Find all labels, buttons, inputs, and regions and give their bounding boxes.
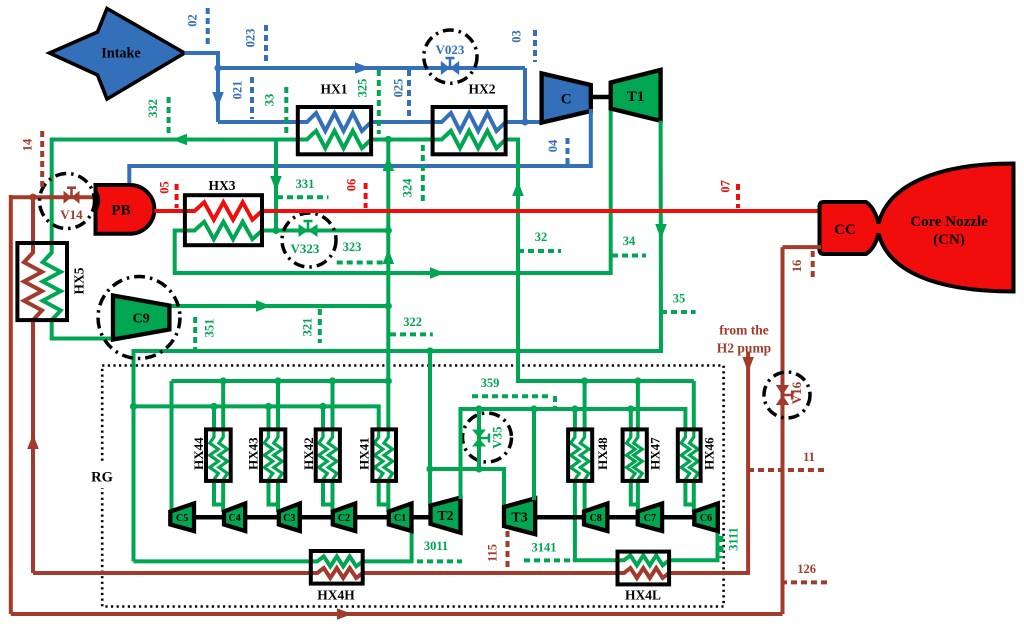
wire bottom H2 line <box>11 612 783 616</box>
svg-text:HX3: HX3 <box>209 178 236 193</box>
wire HX48 right to C8 inlet <box>583 479 587 512</box>
valve V323 body <box>299 224 309 237</box>
valve V323 circle <box>282 213 336 267</box>
arrow on spine up2 <box>383 249 395 264</box>
svg-text:06: 06 <box>345 179 359 192</box>
arrow on bottom H2 line <box>337 608 352 620</box>
svg-text:03: 03 <box>510 30 524 43</box>
svg-text:V16: V16 <box>789 381 804 404</box>
station 34 tick <box>612 254 646 258</box>
svg-text:Intake: Intake <box>101 46 140 62</box>
shaft C5-C4 <box>194 515 224 520</box>
HX47 coil right <box>634 431 643 480</box>
svg-text:from the: from the <box>719 323 769 338</box>
wire HX48 left feed <box>573 409 577 430</box>
HX47 box <box>623 429 647 481</box>
arrow on spine up1 <box>383 156 395 171</box>
svg-text:3111: 3111 <box>727 527 741 551</box>
node upper rail right end <box>385 377 392 384</box>
valve V023 body <box>441 61 450 75</box>
arrow on 021 branch <box>212 92 224 107</box>
valve V35 body <box>472 430 486 439</box>
svg-text:HX4H: HX4H <box>317 588 355 603</box>
wire HX41 to C1 <box>379 479 389 505</box>
wire V14 feed line <box>11 195 96 199</box>
station 03 tick <box>533 30 537 62</box>
wire V35 branch <box>477 409 481 469</box>
HX43 box <box>261 429 285 481</box>
svg-text:HX44: HX44 <box>191 437 206 470</box>
HX4L green coil <box>618 555 670 565</box>
svg-text:V323: V323 <box>291 241 320 256</box>
shaft C2-C1 <box>355 515 389 520</box>
HX41 box <box>372 429 396 481</box>
wire H2 recovery line <box>33 571 313 575</box>
shaft C4-C3 <box>245 515 279 520</box>
wire HX5 maroon feed <box>31 197 35 245</box>
valve V35 circle <box>463 413 512 462</box>
valve V16 circle <box>764 372 810 418</box>
HX5 green coil <box>43 243 61 320</box>
wire lower rail <box>134 406 379 430</box>
wire 332 down to HX5 <box>50 138 54 246</box>
wire 322-323 spine <box>386 140 390 431</box>
HX42 box <box>316 429 340 481</box>
station 115 tick <box>506 531 510 571</box>
shaft C3-C2 <box>300 515 333 520</box>
station 11 tick <box>748 468 825 472</box>
svg-text:325: 325 <box>356 79 370 98</box>
wire HX1-HX2 blue <box>371 120 435 124</box>
wire HX1-HX2 green <box>371 138 435 142</box>
wire HX4H to C1 outlet <box>363 529 412 561</box>
node T3 riser junction <box>530 405 537 412</box>
wire HX4L to C6 outlet <box>669 529 717 560</box>
svg-text:14: 14 <box>21 138 35 151</box>
station 35 tick <box>661 310 696 314</box>
valve V14 body <box>64 191 72 204</box>
wire HX47 to C7 <box>631 479 638 505</box>
svg-text:H2 pump: H2 pump <box>717 341 771 356</box>
wire 021 branch down <box>216 68 220 122</box>
svg-text:021: 021 <box>231 81 245 100</box>
wire T1 inlet riser <box>609 109 613 275</box>
svg-text:HX47: HX47 <box>648 437 663 470</box>
svg-text:33: 33 <box>263 94 277 107</box>
HX44 box <box>206 429 231 481</box>
station 023 tick <box>264 25 268 65</box>
wire 32 HX2 to right rail <box>506 140 694 382</box>
wire T2 inlet <box>428 349 432 506</box>
svg-text:C6: C6 <box>700 513 712 524</box>
station 359 tick <box>472 394 551 398</box>
wire HX46 right to C6 inlet <box>692 479 696 512</box>
station 332 tick <box>167 97 171 134</box>
HX2 blue coil <box>433 113 506 131</box>
node upper rail HX42 <box>329 377 336 384</box>
HX42 coil right <box>328 431 337 480</box>
node 388-139 junction <box>385 136 392 143</box>
node HX3 green out <box>272 227 279 234</box>
svg-text:C1: C1 <box>394 513 406 524</box>
compressor C3 <box>279 504 300 532</box>
wire 023 top line <box>218 66 525 70</box>
combustion chamber CC and core nozzle CN <box>820 164 1014 292</box>
arrow on 34 line <box>655 224 667 239</box>
wire HX43 right to C3 inlet <box>276 479 280 512</box>
shaft T3-C8 <box>535 515 584 520</box>
HX41 coil left <box>374 431 383 480</box>
svg-text:C9: C9 <box>133 312 150 327</box>
svg-text:C7: C7 <box>644 513 656 524</box>
svg-text:C4: C4 <box>228 513 240 524</box>
station 06 tick <box>364 183 368 208</box>
wire HX4H green line <box>134 559 313 563</box>
svg-text:323: 323 <box>343 240 362 254</box>
station 3141 tick <box>524 558 570 562</box>
HX1 blue coil <box>298 113 371 131</box>
wire HX5 maroon down <box>31 318 35 573</box>
node V35 bottom tee <box>475 465 482 472</box>
station 07 tick <box>736 184 740 208</box>
svg-text:Core Nozzle: Core Nozzle <box>910 214 988 230</box>
station 04 tick <box>566 138 570 164</box>
wire V323 line <box>262 229 388 233</box>
svg-text:3141: 3141 <box>532 541 557 555</box>
HX46 coil right <box>690 431 699 480</box>
wire HX2 to C <box>506 120 543 124</box>
C9 dash-dot circle <box>98 277 180 359</box>
wire HX44 right to C4 inlet <box>221 479 225 512</box>
intake block arrow <box>50 9 185 100</box>
HX1 green coil <box>298 131 371 148</box>
wire main red line to CC <box>262 209 821 213</box>
svg-text:V023: V023 <box>436 42 465 57</box>
valve V16 body <box>776 385 789 395</box>
station 324 tick <box>421 145 425 205</box>
HX3 green coil <box>185 222 262 239</box>
svg-text:HX2: HX2 <box>469 82 496 97</box>
HX43 coil right <box>274 431 283 480</box>
HX47 coil left <box>627 431 636 480</box>
compressor C1 <box>389 504 412 532</box>
arrow on HX5 return <box>27 434 39 449</box>
wire HX48 right feed <box>583 381 587 430</box>
svg-text:C8: C8 <box>590 513 602 524</box>
HX48 coil right <box>580 431 589 480</box>
wire HX48 left down to HX4L <box>573 479 577 560</box>
svg-text:CC: CC <box>834 222 856 238</box>
wire PB to HX3 red <box>154 209 187 213</box>
svg-text:HX48: HX48 <box>595 437 610 470</box>
HX41 coil right <box>384 431 393 480</box>
wire intake outlet 02 <box>185 53 219 68</box>
wire HX44 to C4 <box>214 479 223 505</box>
turbine T1 <box>611 70 661 121</box>
wire HX4L green line <box>575 558 620 560</box>
HX4H maroon coil <box>311 568 363 578</box>
HX43 left feed <box>267 406 271 430</box>
HX42 left feed <box>321 406 325 430</box>
HX44 left feed <box>212 406 216 430</box>
station 126 tick <box>781 580 827 584</box>
station 02 tick <box>206 8 210 48</box>
svg-text:332: 332 <box>146 99 160 118</box>
svg-text:321: 321 <box>301 318 315 337</box>
station 331 tick <box>277 195 328 199</box>
wire HX43 right feed <box>276 381 280 430</box>
HX4H green coil <box>311 556 363 566</box>
compressor C4 <box>224 504 245 532</box>
shaft C7-C6 <box>662 515 694 520</box>
HX42 coil left <box>319 431 328 480</box>
node V35 top tee <box>475 405 482 412</box>
shaft C8-C7 <box>607 515 637 520</box>
svg-text:HX5: HX5 <box>72 267 87 294</box>
wire 03 corner down <box>523 68 527 122</box>
svg-text:35: 35 <box>673 292 686 306</box>
wire C5 feed <box>170 381 174 512</box>
wire HX42 to C2 <box>323 479 333 505</box>
wire HX44 right feed <box>221 381 225 430</box>
preburner PB <box>96 185 155 234</box>
node C9 outlet junction <box>385 302 392 309</box>
wire HX42 right feed <box>331 381 335 430</box>
svg-text:(CN): (CN) <box>933 232 965 248</box>
wire 34 T1 outlet <box>134 121 662 351</box>
wire outer H2 left drop <box>9 195 13 614</box>
station 3011 tick <box>417 559 462 563</box>
svg-text:HX43: HX43 <box>246 437 261 470</box>
compressor C5 <box>170 504 194 532</box>
station 16 tick <box>811 251 815 278</box>
wire T2 outlet rail <box>461 409 686 499</box>
turbine T2 <box>431 498 461 533</box>
HX44 coil left <box>210 431 219 480</box>
node lower rail left <box>130 403 137 410</box>
station 321 tick <box>318 309 322 343</box>
node upper rail HX43 <box>274 377 281 384</box>
HX5 box <box>17 243 67 320</box>
node lower rail HX44 <box>210 403 217 410</box>
node V323 right junction <box>385 227 392 234</box>
svg-text:126: 126 <box>797 562 816 576</box>
svg-text:C5: C5 <box>176 513 188 524</box>
svg-text:3011: 3011 <box>424 539 448 553</box>
wire HX42 right to C2 inlet <box>331 479 335 512</box>
svg-text:16: 16 <box>790 260 804 273</box>
wire HX47 right feed <box>636 381 640 430</box>
node HX47 left feed <box>627 405 634 412</box>
wire HX47 left feed <box>629 409 633 430</box>
svg-text:T2: T2 <box>437 509 453 524</box>
svg-text:HX1: HX1 <box>321 82 348 97</box>
recuperator group RG dotted border <box>102 366 723 607</box>
compressor C7 <box>638 504 662 532</box>
arrow on T1 inlet line <box>430 267 445 279</box>
shaft C-T1 <box>591 95 611 100</box>
arrow on 324 branch <box>270 176 282 191</box>
svg-text:324: 324 <box>401 178 415 198</box>
turbine T3 <box>504 498 535 534</box>
wire T3 riser <box>532 409 536 500</box>
node HX48 left feed <box>571 405 578 412</box>
HX5 maroon coil <box>24 243 42 320</box>
svg-text:RG: RG <box>91 470 113 486</box>
svg-text:PB: PB <box>111 203 130 219</box>
station 021 tick <box>250 77 254 119</box>
wire 04 from C to PB <box>129 109 591 187</box>
wire CC H2 feed <box>783 245 822 249</box>
node upper rail HX44 <box>220 377 227 384</box>
arrow from H2 pump <box>742 357 754 372</box>
svg-text:T1: T1 <box>627 89 645 105</box>
svg-text:C3: C3 <box>283 513 295 524</box>
valve V14 circle <box>40 174 95 229</box>
compressor C <box>542 73 591 122</box>
HX4L maroon coil <box>618 568 670 578</box>
node HX48 right feed <box>581 377 588 384</box>
HX1 box <box>298 107 371 154</box>
HX3 red coil <box>185 202 262 219</box>
svg-text:11: 11 <box>803 450 815 464</box>
HX48 coil left <box>571 431 580 480</box>
wire HX4L to pump riser <box>669 352 748 573</box>
svg-text:023: 023 <box>244 29 258 48</box>
node intake junction <box>214 64 221 71</box>
HX48 box <box>568 429 592 481</box>
svg-text:C2: C2 <box>338 513 350 524</box>
station 32 tick <box>518 249 561 253</box>
node H2 split <box>29 194 36 201</box>
wire HX46 to C6 <box>685 479 693 505</box>
node compressor inlet junction <box>521 118 528 125</box>
compressor C8 <box>584 504 607 532</box>
HX2 green coil <box>433 131 506 148</box>
wire 32 rail to HX46 right <box>692 381 696 430</box>
shaft C1-T2 <box>412 515 431 520</box>
wire between HX4H HX4L <box>363 571 620 575</box>
node lower rail HX42 <box>319 403 326 410</box>
station 05 tick <box>175 184 179 208</box>
station 3111 tick <box>720 536 724 558</box>
wire 332 line <box>52 138 300 142</box>
svg-text:HX4L: HX4L <box>625 588 661 603</box>
svg-text:HX46: HX46 <box>702 437 717 470</box>
svg-text:V14: V14 <box>60 207 83 222</box>
wire HX3 green left to T1 inlet <box>175 231 611 274</box>
svg-text:32: 32 <box>535 230 548 244</box>
wire 34 left rail down <box>132 349 136 561</box>
node V35 bottom junction <box>426 465 433 472</box>
svg-text:05: 05 <box>157 181 171 194</box>
station 33 tick <box>284 87 288 133</box>
svg-text:HX41: HX41 <box>357 437 372 470</box>
wire 021 to HX1 <box>218 120 300 124</box>
wire HX5 to C9 inlet <box>52 318 115 339</box>
station 322 tick <box>390 332 433 336</box>
wire C9 outlet <box>169 304 388 308</box>
svg-text:07: 07 <box>719 180 733 193</box>
compressor C9 <box>113 296 169 340</box>
HX46 coil left <box>681 431 690 480</box>
svg-text:359: 359 <box>481 376 500 390</box>
HX4L box <box>618 552 670 585</box>
svg-text:T3: T3 <box>511 510 527 525</box>
wire HX43 to C3 <box>269 479 279 505</box>
valve V023 circle <box>424 30 477 83</box>
HX44 coil right <box>219 431 228 480</box>
arrow on 023 line <box>355 62 370 74</box>
svg-text:115: 115 <box>486 544 500 562</box>
svg-text:34: 34 <box>623 234 636 248</box>
station 325 tick <box>377 70 381 134</box>
wire 324 branch down <box>274 138 278 231</box>
wire V35 bottom line to T3 <box>430 469 504 508</box>
compressor C6 <box>694 504 718 532</box>
compressor C2 <box>333 504 355 532</box>
HX4H box <box>311 551 363 584</box>
wire upper rail <box>172 379 389 383</box>
HX3 box <box>185 195 262 245</box>
svg-text:025: 025 <box>392 79 406 98</box>
svg-text:322: 322 <box>403 315 422 329</box>
arrow on 32 line <box>512 181 524 196</box>
station 025 tick <box>407 70 411 117</box>
svg-text:V35: V35 <box>490 426 505 449</box>
HX46 box <box>678 429 701 481</box>
node HX47 right feed <box>634 377 641 384</box>
HX43 coil left <box>264 431 273 480</box>
svg-text:331: 331 <box>296 177 315 191</box>
wire V16 riser <box>781 247 785 614</box>
node T2 inlet junction <box>426 347 433 354</box>
svg-text:04: 04 <box>546 139 560 152</box>
svg-text:HX42: HX42 <box>301 437 316 470</box>
svg-text:351: 351 <box>203 319 217 338</box>
station 323 tick <box>337 261 387 265</box>
station 351 tick <box>193 317 197 349</box>
node lower rail HX43 <box>265 403 272 410</box>
station 14 tick <box>40 131 44 191</box>
HX2 box <box>433 107 506 154</box>
arrow on C9 outlet <box>256 300 271 312</box>
svg-text:02: 02 <box>186 14 200 27</box>
wire HX47 right to C7 inlet <box>636 479 640 512</box>
svg-text:C: C <box>561 91 572 107</box>
arrow on 332 line <box>172 134 187 145</box>
wire HX41 right to C1 inlet <box>386 479 390 512</box>
